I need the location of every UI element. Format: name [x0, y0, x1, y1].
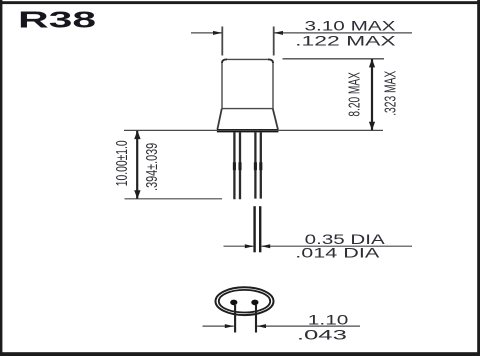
pin 1 dot: [230, 300, 237, 306]
svg-text:10.00±1.0: 10.00±1.0: [113, 140, 131, 186]
svg-text:.014 DIA: .014 DIA: [295, 244, 380, 260]
svg-text:3.10 MAX: 3.10 MAX: [305, 19, 396, 34]
can base flange: [217, 129, 279, 132]
svg-text:.122 MAX: .122 MAX: [295, 33, 396, 48]
svg-text:R38: R38: [18, 6, 96, 32]
lead detail segment (lead diameter callout): [255, 206, 261, 252]
can bottom view inner rim: [219, 290, 270, 313]
dimension 1.10 / .043 (pin spacing): [234, 305, 236, 333]
svg-text:8.20 MAX: 8.20 MAX: [345, 72, 363, 117]
can skirt left slant: [217, 109, 221, 130]
dimension 8.20 MAX / .323 MAX (can height): [283, 58, 385, 60]
base reference line: [124, 129, 383, 131]
can bottom view outer rim: [216, 287, 274, 315]
lead 2 (right, side view): [255, 132, 260, 198]
lead 1 break marks: [234, 162, 240, 170]
can skirt top edge: [222, 108, 273, 110]
lead 1 (left, side view): [234, 132, 240, 199]
lead 2 break marks: [255, 162, 260, 170]
svg-text:.394±.039: .394±.039: [143, 143, 161, 191]
can skirt right slant: [273, 109, 278, 130]
svg-text:.323 MAX: .323 MAX: [381, 71, 399, 116]
svg-text:1.10: 1.10: [308, 312, 349, 328]
dimension 10.00±1.0 / .394±.039 (lead length): [125, 198, 223, 200]
svg-text:.043: .043: [297, 326, 347, 342]
dimension 0.35 DIA / .014 DIA (lead diameter): [224, 245, 254, 247]
dimension 3.10 MAX / .122 MAX (can diameter): [191, 27, 412, 56]
can body (side view): [222, 59, 273, 108]
pin 2 dot: [251, 300, 258, 306]
